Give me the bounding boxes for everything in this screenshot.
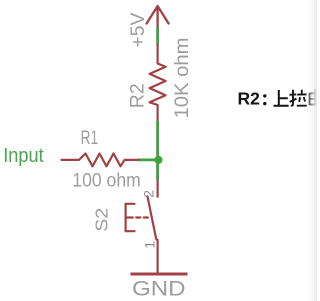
lever	[148, 197, 158, 241]
resistor R1 (100 ohm, horizontal)	[62, 154, 139, 167]
wire (node to switch pin 2, red lead)	[157, 180, 159, 198]
svg-text:S2: S2	[91, 208, 111, 232]
node junction (green dot)	[154, 156, 162, 164]
svg-text:R2: R2	[238, 89, 261, 109]
svg-text:R1: R1	[81, 127, 99, 149]
actuator bracket	[126, 204, 135, 231]
wire (from +5V to R2 top pin)	[156, 28, 159, 46]
resistor R2 (10K, vertical)	[150, 45, 166, 122]
svg-text:1: 1	[142, 241, 158, 249]
hanzi 拉 (la)	[290, 90, 307, 106]
fullwidth colon	[263, 94, 266, 97]
svg-text:10K ohm: 10K ohm	[171, 38, 193, 119]
ground symbol	[131, 273, 188, 276]
wire (R1 right lead to node, horizontal green)	[138, 158, 158, 161]
hanzi 上 (shang)	[274, 90, 289, 106]
wire (R2 bottom pin to node, vertical green)	[156, 121, 159, 180]
svg-text:100 ohm: 100 ohm	[72, 169, 141, 191]
svg-text:Input: Input	[3, 145, 44, 167]
power symbol +5V (arrow)	[147, 6, 169, 28]
wire (switch pin 1 to ground)	[157, 240, 159, 275]
svg-text:+5V: +5V	[127, 13, 149, 48]
right edge gradient strip	[305, 0, 317, 301]
dashed actuator link	[126, 216, 148, 218]
switch S2 (SPST pushbutton)	[126, 197, 158, 241]
svg-text:R2: R2	[127, 83, 149, 108]
hanzi 电 (dian) partially cut	[310, 89, 320, 105]
annotation text R2: pull-up (black bold)	[238, 89, 267, 109]
svg-text:GND: GND	[132, 276, 186, 300]
